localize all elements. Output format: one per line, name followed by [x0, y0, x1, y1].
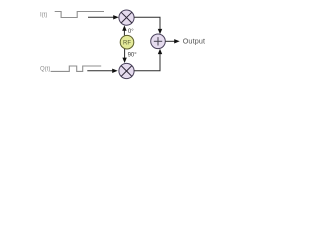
svg-text:Output: Output — [183, 36, 205, 45]
wire I input to mixer U1 — [88, 16, 115, 18]
wire Q(t) square waveform — [51, 66, 102, 71]
svg-text:I(t): I(t) — [40, 12, 47, 18]
svg-text:Q(t): Q(t) — [40, 67, 50, 73]
wire summer to output — [165, 40, 175, 42]
mixer U2 (bottom, Q channel) — [119, 63, 134, 78]
wire LO 90-degree from RF to mixer U2 — [124, 49, 126, 59]
wire mixer U2 output to summer — [134, 53, 160, 71]
summer S1 — [151, 34, 166, 49]
svg-text:0°: 0° — [128, 29, 134, 35]
wire I(t) square waveform — [55, 12, 104, 18]
oscillator RF — [120, 35, 134, 49]
wire Q input to mixer U2 — [87, 70, 113, 72]
svg-text:90°: 90° — [128, 53, 138, 59]
mixer U1 (top, I channel) — [119, 10, 134, 25]
wire mixer U1 output to summer — [134, 17, 160, 30]
svg-text:RF: RF — [123, 40, 131, 46]
wire LO 0-degree from RF to mixer U1 — [123, 29, 125, 35]
